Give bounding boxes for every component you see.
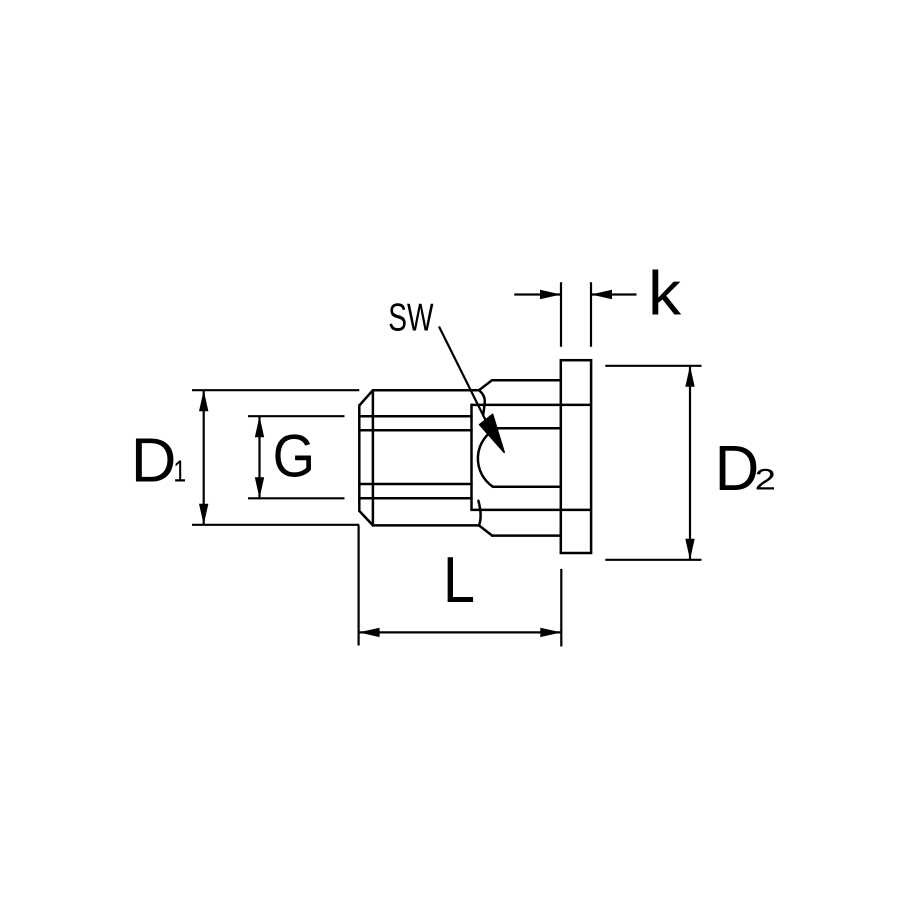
hex bottom-left chamfer	[479, 525, 492, 535]
k left extension line	[560, 282, 562, 346]
svg-text:SW: SW	[388, 296, 433, 340]
D1 top extension line	[192, 389, 359, 391]
shank left face	[358, 406, 361, 511]
hex top corner arc	[479, 390, 485, 414]
D1 bottom extension line	[192, 524, 359, 526]
L arrow right	[540, 628, 561, 637]
SW leader line	[439, 327, 486, 422]
hex bottom corner arc	[478, 501, 480, 526]
L right extension line	[560, 569, 562, 647]
shank chamfer edge vertical	[372, 390, 375, 525]
thread line 4	[359, 497, 471, 500]
D2 bottom extension line	[605, 559, 701, 561]
D2 top extension line	[605, 365, 701, 367]
svg-text:D: D	[131, 426, 177, 495]
svg-text:G: G	[273, 423, 315, 490]
L dimension line	[359, 631, 562, 633]
D2 arrow up	[685, 366, 694, 387]
k arrow pointing right	[540, 290, 561, 299]
G top extension line	[248, 415, 345, 417]
L arrow left	[359, 628, 380, 637]
shank top edge	[373, 389, 479, 392]
hex top-left chamfer	[479, 380, 492, 390]
thread line 3	[359, 483, 471, 486]
G dimension line	[258, 416, 260, 498]
shank bottom chamfer	[359, 511, 373, 526]
hex inner top line	[497, 427, 561, 430]
D1 arrow up	[199, 390, 208, 411]
thread line 2	[359, 429, 471, 432]
k arrow pointing left	[591, 290, 612, 299]
shank top chamfer	[359, 390, 373, 405]
G bottom extension line	[248, 497, 345, 499]
hex inner bottom line	[493, 486, 561, 489]
D2 dimension line	[689, 366, 691, 560]
svg-text:D: D	[715, 433, 760, 504]
D2 arrow down	[685, 539, 694, 560]
svg-text:1: 1	[173, 455, 186, 489]
SW leader arrowhead	[480, 414, 505, 452]
hex bottom edge	[492, 534, 561, 537]
thread line 1	[359, 415, 471, 418]
G arrow down	[255, 477, 264, 498]
svg-text:2: 2	[755, 464, 776, 497]
hex face bottom line through flange	[472, 509, 592, 512]
D1 dimension line	[203, 390, 205, 525]
k dimension line left part	[514, 293, 561, 295]
flange	[561, 360, 591, 553]
k right extension line	[590, 282, 592, 346]
D1 arrow down	[199, 504, 208, 525]
hex face top line through flange	[472, 404, 592, 407]
hex top edge	[492, 379, 561, 382]
svg-text:L: L	[443, 544, 475, 617]
L left extension line	[358, 525, 360, 645]
hex face left edge	[470, 405, 473, 510]
shank bottom edge	[373, 524, 479, 527]
k dimension line right part	[591, 293, 637, 295]
G arrow up	[255, 416, 264, 437]
svg-text:k: k	[648, 258, 682, 328]
hex central arc	[478, 428, 497, 487]
